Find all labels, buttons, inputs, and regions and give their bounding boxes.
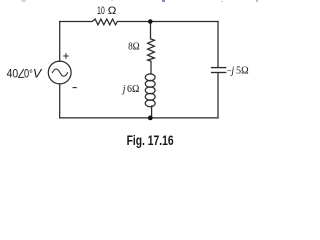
svg-text:0°: 0° — [24, 67, 33, 81]
svg-text:V: V — [33, 67, 43, 81]
svg-text:5Ω: 5Ω — [236, 65, 249, 77]
svg-text:8Ω: 8Ω — [128, 40, 140, 52]
svg-text:j: j — [121, 83, 126, 95]
svg-text:Fig. 17.16: Fig. 17.16 — [127, 133, 174, 149]
svg-text:10: 10 — [97, 5, 105, 17]
svg-text:6Ω: 6Ω — [127, 83, 139, 95]
svg-text:40: 40 — [7, 67, 19, 81]
svg-text:Ω: Ω — [108, 5, 117, 17]
